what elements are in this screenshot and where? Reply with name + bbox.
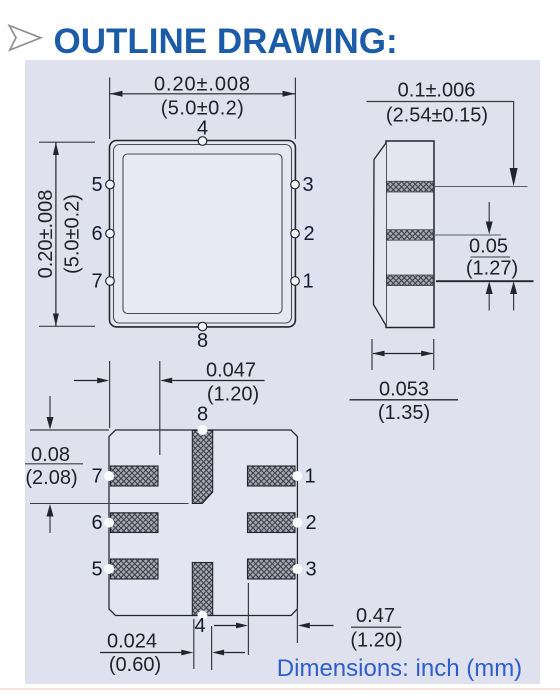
svg-text:6: 6	[91, 512, 102, 534]
0.08 lower reference line	[30, 503, 189, 505]
svg-text:8: 8	[197, 330, 208, 352]
0.47 right arrowhead and leader	[298, 623, 310, 629]
notch pad 4	[198, 611, 208, 621]
castellation notch pin 1	[291, 277, 300, 286]
castellation notch pin 4	[198, 137, 207, 146]
castellation notch pin 6	[106, 229, 115, 238]
side top dimension down arrow	[510, 168, 518, 186]
top view package outer outline	[110, 141, 296, 327]
0.47 left leader and arrowhead	[214, 625, 237, 627]
svg-text:(1.35): (1.35)	[378, 402, 430, 424]
0.047 left leader and arrowhead	[74, 380, 98, 382]
side bottom width left arrowhead	[372, 351, 384, 357]
svg-text:0.024: 0.024	[107, 631, 157, 653]
svg-text:0.20±.008: 0.20±.008	[35, 190, 57, 279]
svg-text:2: 2	[303, 223, 314, 245]
notch pad 6	[104, 518, 114, 528]
0.047 dimension extension lines	[110, 361, 160, 455]
notch pad 2	[292, 518, 302, 528]
top width dimension line	[110, 93, 296, 95]
0.08 fraction bar	[25, 463, 83, 465]
svg-text:0.47: 0.47	[356, 605, 395, 627]
castellation notch pin 3	[291, 180, 300, 189]
svg-text:Dimensions: inch (mm): Dimensions: inch (mm)	[277, 655, 522, 682]
faint bottom rule	[0, 688, 560, 690]
top view cavity line	[123, 154, 282, 314]
left height dimension extension lines	[39, 142, 95, 326]
notch pad 5	[104, 564, 114, 574]
svg-text:(2.54±0.15): (2.54±0.15)	[386, 105, 488, 127]
castellation notch pin 2	[291, 229, 300, 238]
bottom view body outline	[109, 430, 297, 616]
notch pad 8	[198, 425, 208, 435]
svg-text:(1.20): (1.20)	[207, 384, 259, 406]
notch pad 7	[104, 471, 114, 481]
svg-text:7: 7	[91, 466, 102, 488]
svg-text:4: 4	[194, 615, 205, 637]
svg-text:0.05: 0.05	[469, 236, 508, 258]
side pad band 1	[387, 181, 434, 192]
svg-text:(1.27): (1.27)	[466, 258, 518, 280]
0.05 dimension up arrow	[486, 281, 493, 294]
side bottom width dimension line	[373, 353, 433, 355]
svg-text:(5.0±0.2): (5.0±0.2)	[62, 194, 84, 274]
pad 1	[248, 466, 296, 486]
castellation notch pin 5	[106, 180, 115, 189]
left height dimension top arrowhead	[53, 142, 59, 155]
title arrow glyph	[9, 26, 41, 51]
0.47 fraction bar	[351, 626, 401, 628]
pad 5	[111, 559, 159, 579]
top width dimension right arrowhead	[283, 91, 296, 97]
left height dimension bottom arrowhead	[53, 314, 59, 327]
svg-text:8: 8	[197, 404, 208, 426]
pad 3	[248, 559, 296, 579]
top width dimension left arrowhead	[110, 91, 123, 97]
band 2 leader line	[434, 234, 501, 236]
0.08 dimension: top edge extension	[30, 429, 109, 431]
0.024 dimension extension lines	[194, 619, 212, 670]
svg-text:6: 6	[91, 223, 102, 245]
side view body	[386, 141, 434, 328]
svg-text:0.053: 0.053	[379, 379, 429, 401]
svg-text:0.20±.008: 0.20±.008	[154, 74, 251, 96]
pad 6	[111, 513, 159, 533]
svg-text:(1.20): (1.20)	[350, 630, 402, 652]
top view lid line	[114, 145, 292, 324]
castellation notch pin 7	[106, 277, 115, 286]
side bottom width extension lines	[372, 339, 434, 370]
0.05 fraction bar	[471, 256, 511, 258]
notch pad 1	[292, 471, 302, 481]
svg-text:2: 2	[305, 512, 316, 534]
band 1 leader line	[434, 186, 528, 188]
svg-text:4: 4	[197, 118, 208, 140]
pad 7	[111, 466, 159, 486]
left height dimension line	[55, 142, 57, 326]
svg-text:1: 1	[302, 271, 313, 293]
band 3 leader line	[436, 280, 534, 282]
pad 8 (center top, chamfered)	[192, 431, 212, 504]
0.47 dimension extension lines	[248, 583, 297, 655]
side pad band 3	[387, 275, 434, 286]
svg-text:(0.60): (0.60)	[109, 654, 161, 676]
pad 2	[248, 513, 296, 533]
svg-text:7: 7	[91, 271, 102, 293]
svg-text:0.1±.006: 0.1±.006	[398, 80, 476, 102]
0.024 left leader and arrowhead	[100, 652, 182, 654]
svg-text:(2.08): (2.08)	[25, 467, 77, 489]
svg-text:OUTLINE DRAWING:: OUTLINE DRAWING:	[54, 22, 398, 61]
svg-text:0.08: 0.08	[31, 444, 70, 466]
0.047 right leader and arrowhead	[160, 378, 172, 384]
side bottom width right arrowhead	[421, 351, 433, 357]
side pad band 2	[387, 230, 434, 241]
svg-text:3: 3	[305, 559, 316, 581]
svg-text:1: 1	[304, 466, 315, 488]
svg-text:5: 5	[91, 174, 102, 196]
svg-text:0.047: 0.047	[206, 360, 256, 382]
side view lid bevel	[374, 143, 387, 326]
svg-text:5: 5	[91, 559, 102, 581]
notch pad 3	[292, 564, 302, 574]
svg-text:(5.0±0.2): (5.0±0.2)	[161, 98, 245, 120]
top width dimension extension lines	[110, 78, 296, 140]
0.08 down arrow	[49, 396, 51, 417]
0.024 right arrowhead and leader	[212, 650, 224, 656]
castellation notch pin 8	[198, 322, 207, 331]
0.05 dimension down arrow	[488, 202, 490, 226]
0.1 dimension up arrow	[510, 281, 517, 294]
svg-text:3: 3	[302, 174, 313, 196]
0.053 fraction bar	[350, 399, 459, 401]
0.08 up arrow	[47, 504, 54, 517]
pad 4 (center bottom)	[192, 563, 212, 616]
side top dimension leader	[367, 102, 514, 171]
